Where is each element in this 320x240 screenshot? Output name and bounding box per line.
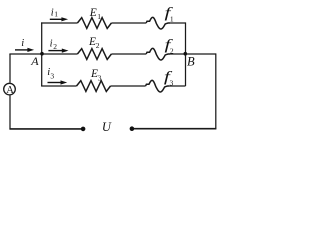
node A junction dot [40, 52, 44, 56]
wire branch1 right segment to corner [170, 22, 186, 24]
wire bottom right segment [132, 128, 216, 130]
svg-text:3: 3 [98, 74, 102, 83]
wire branch2 from f2 to node B and onward to right corner [170, 53, 216, 55]
svg-text:1: 1 [54, 10, 58, 19]
wire node B vertical (branch1 to branch3) [185, 22, 187, 86]
current arrow i [15, 48, 34, 52]
wire branch3 right segment to node B vertical [169, 85, 185, 87]
resistor E3 [77, 81, 111, 92]
svg-text:A: A [30, 54, 39, 68]
current arrow i1 [50, 17, 68, 21]
svg-text:i: i [21, 38, 24, 49]
wire branch3 left segment [41, 85, 76, 87]
fuse f3 [146, 80, 170, 92]
svg-text:U: U [102, 120, 112, 134]
svg-text:2: 2 [96, 41, 100, 50]
svg-text:3: 3 [50, 71, 54, 80]
wire branch1 middle segment [111, 22, 146, 24]
wire right vertical [215, 53, 217, 128]
svg-text:3: 3 [170, 78, 174, 87]
wire left vertical from ammeter down to bottom-left corner [9, 96, 11, 129]
wire branch2 segment [111, 53, 146, 55]
wire bottom left segment [9, 128, 83, 130]
svg-text:A: A [6, 85, 14, 96]
wire branch2 left segment from corner to node A [9, 53, 42, 55]
terminal dot right of U [130, 126, 135, 131]
wire node A vertical (branch1 to branch3) [41, 22, 43, 86]
svg-text:1: 1 [170, 14, 174, 23]
svg-text:B: B [187, 54, 195, 68]
ammeter A1 circle [4, 83, 16, 95]
fuse f2 [146, 48, 170, 60]
terminal dot left of U [81, 127, 86, 132]
resistor E2 [77, 49, 111, 60]
current arrow i2 [48, 49, 68, 53]
svg-text:i: i [50, 38, 53, 49]
svg-text:2: 2 [170, 46, 174, 55]
svg-text:E: E [89, 7, 97, 19]
wire branch1 left segment [41, 22, 77, 24]
wire branch2 middle: node A to node B through E2, f2 [42, 53, 77, 55]
svg-text:2: 2 [53, 42, 57, 51]
wire left vertical from branch2 corner down to ammeter [9, 54, 11, 83]
svg-text:1: 1 [97, 12, 101, 21]
resistor E1 [77, 18, 111, 29]
wire branch3 middle segment [111, 85, 146, 87]
current arrow i3 [48, 80, 68, 84]
node B junction dot [184, 52, 188, 56]
fuse f1 [146, 17, 170, 29]
